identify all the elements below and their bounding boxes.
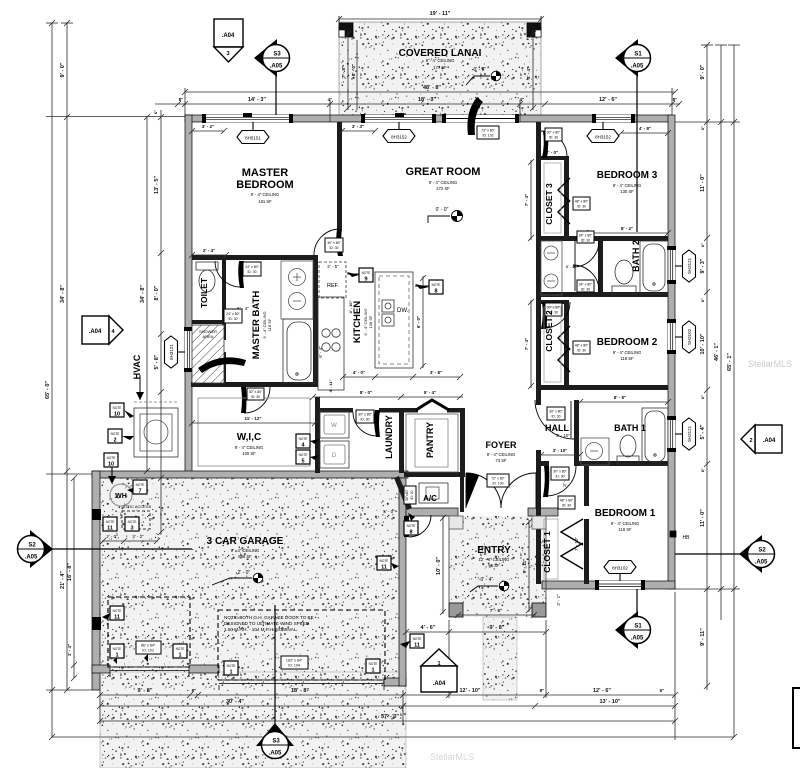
svg-text:34' - 8": 34' - 8" xyxy=(140,285,146,303)
wall closet1 left xyxy=(536,512,541,584)
wall closet3 right xyxy=(564,156,569,237)
note box 2 hvac xyxy=(108,429,134,444)
svg-text:9' - 4" CEILING: 9' - 4" CEILING xyxy=(235,445,264,450)
dim line bottom row2 xyxy=(97,703,678,709)
marker S1-A05 bottom xyxy=(615,589,651,649)
svg-text:NOTE: BOTH O.H. GARAGE DOOR TO: NOTE: BOTH O.H. GARAGE DOOR TO BE xyxy=(224,615,314,620)
note box 3 attic xyxy=(125,517,139,532)
svg-text:.A05: .A05 xyxy=(631,64,644,70)
garage interior dims 2-0 3-2 xyxy=(106,534,144,539)
size box wic door xyxy=(247,388,264,400)
door opening great room to lanai xyxy=(442,114,519,123)
svg-text:BEDROOM 1: BEDROOM 1 xyxy=(595,508,656,519)
room label 3 CAR GARAGE xyxy=(207,536,284,559)
room label W.I.C xyxy=(235,432,264,456)
svg-text:6": 6" xyxy=(700,395,705,399)
svg-text:3' - 2": 3' - 2" xyxy=(132,534,144,539)
dim kitchen 6-0 xyxy=(420,275,426,369)
svg-text:30" x 80": 30" x 80" xyxy=(553,470,567,474)
note box 11 garage bottom right xyxy=(400,634,424,649)
svg-text:34' - 8": 34' - 8" xyxy=(60,285,66,303)
svg-text:ID: 30: ID: 30 xyxy=(228,317,237,321)
svg-text:8' - 0": 8' - 0" xyxy=(154,285,160,300)
garage door threshold right xyxy=(219,680,384,690)
note box 11 garage left xyxy=(102,606,124,621)
size box closet2 xyxy=(573,341,590,354)
closet2 bifold xyxy=(558,326,570,372)
svg-text:11' - 0": 11' - 0" xyxy=(700,509,706,527)
svg-text:NOTE: NOTE xyxy=(113,647,122,651)
svg-text:FOYER: FOYER xyxy=(485,440,517,450)
dim line bottom row1 xyxy=(97,692,678,698)
svg-text:1.60 M.P.H. - 104 M.P.H. NOMIN: 1.60 M.P.H. - 104 M.P.H. NOMINAL xyxy=(224,627,297,632)
svg-text:46' - 1": 46' - 1" xyxy=(714,343,720,361)
svg-text:130 SF: 130 SF xyxy=(620,189,634,194)
svg-text:BEDROOM 2: BEDROOM 2 xyxy=(597,337,658,348)
svg-text:StellarMLS: StellarMLS xyxy=(430,752,474,762)
dim wic 11-12 xyxy=(189,420,318,426)
svg-text:4' - 8": 4' - 8" xyxy=(639,126,651,131)
svg-text:3' - 2": 3' - 2" xyxy=(202,124,214,129)
svg-text:S3: S3 xyxy=(272,739,280,745)
svg-text:ID: 102: ID: 102 xyxy=(483,134,494,138)
size box laundry door xyxy=(356,410,374,423)
size box garage house door xyxy=(404,486,416,504)
note box 10 hvac xyxy=(110,403,134,418)
svg-text:ID: 30: ID: 30 xyxy=(551,415,560,419)
room label KITCHEN (vertical) xyxy=(352,301,373,343)
svg-text:SH3121: SH3121 xyxy=(687,425,692,442)
svg-text:11' - 12": 11' - 12" xyxy=(245,416,262,421)
size box bedroom1 door xyxy=(551,467,569,480)
svg-text:8": 8" xyxy=(540,688,545,693)
room label FOYER xyxy=(485,440,517,463)
svg-text:.A05: .A05 xyxy=(755,560,768,566)
closet3 bifold xyxy=(558,178,570,224)
dim line left 9-0 34-8 21-4 xyxy=(61,20,73,693)
dim line top 48-8 xyxy=(182,89,678,95)
svg-text:8: 8 xyxy=(434,289,437,295)
room label MASTER BATH (vertical) xyxy=(251,291,272,360)
svg-text:18' - 8": 18' - 8" xyxy=(291,688,309,694)
dim line right 65-1 xyxy=(728,45,740,740)
svg-text:57' - 0": 57' - 0" xyxy=(381,714,399,720)
svg-text:NOTE: NOTE xyxy=(227,664,236,668)
svg-text:9' - 0": 9' - 0" xyxy=(60,62,66,77)
dim hall 8-8 xyxy=(577,399,671,405)
wall master bath right / kitchen left xyxy=(313,255,318,387)
svg-text:NOTE: NOTE xyxy=(128,520,137,524)
wall exterior top xyxy=(185,115,672,122)
svg-text:73" x 80": 73" x 80" xyxy=(481,129,495,133)
note box 4 laundry xyxy=(296,434,319,449)
garage door dashed right bay xyxy=(218,610,385,680)
size box bedroom3 door xyxy=(545,128,562,141)
dim line right 46-1 xyxy=(715,45,727,620)
note box 11 attic xyxy=(103,517,117,532)
dim bedroom3 4-8 xyxy=(618,130,671,136)
svg-text:1: 1 xyxy=(437,661,440,667)
svg-text:3' - 1": 3' - 1" xyxy=(556,594,561,606)
svg-text:IO: 104: IO: 104 xyxy=(288,664,300,668)
svg-text:12' - 10": 12' - 10" xyxy=(459,688,480,694)
svg-text:NOTE: NOTE xyxy=(113,609,122,613)
window bath2 right xyxy=(667,246,676,284)
level symbol lanai -0-4 xyxy=(466,67,501,85)
svg-text:7' - 10": 7' - 10" xyxy=(574,537,579,551)
svg-text:ID: 30: ID: 30 xyxy=(549,136,558,140)
svg-text:1: 1 xyxy=(229,670,232,676)
hvac label arrow xyxy=(136,375,144,400)
svg-text:9' - 11": 9' - 11" xyxy=(700,628,706,646)
wall closet1 right / bedroom1 left upper xyxy=(584,466,589,506)
svg-text:4' - 6": 4' - 6" xyxy=(421,625,436,631)
door bath2 south xyxy=(573,265,599,291)
svg-text:24" x 80": 24" x 80" xyxy=(579,283,593,287)
svg-text:4' - 11": 4' - 11" xyxy=(328,379,333,392)
svg-text:21' - 4": 21' - 4" xyxy=(60,571,66,589)
svg-text:.A05: .A05 xyxy=(631,636,644,642)
svg-text:DESIGNED TO ULTIMATE WIND SPEE: DESIGNED TO ULTIMATE WIND SPEED xyxy=(224,621,310,626)
kitchen island xyxy=(375,272,413,368)
marker S3-A05 top xyxy=(254,39,290,115)
svg-text:NOTE: NOTE xyxy=(106,520,115,524)
note box 1 garage b xyxy=(173,644,187,659)
door bedroom2 xyxy=(541,302,570,329)
wall master bath bottom / wic top xyxy=(191,382,318,387)
closet1 shelves xyxy=(544,519,558,579)
kitchen counter cooktop xyxy=(318,297,344,390)
svg-text:5: 5 xyxy=(301,459,304,465)
svg-text:8' - 8": 8' - 8" xyxy=(614,395,626,400)
marker S3-A05 bottom xyxy=(256,605,294,759)
svg-text:ID: 30: ID: 30 xyxy=(360,418,369,422)
svg-text:S3: S3 xyxy=(273,52,281,58)
svg-text:30' - 4": 30' - 4" xyxy=(226,699,244,705)
svg-text:AREA: AREA xyxy=(203,334,214,339)
shower door leaf xyxy=(198,357,246,373)
wall pantry bottom xyxy=(404,472,465,477)
svg-text:NOTE: NOTE xyxy=(362,271,371,275)
svg-text:1: 1 xyxy=(178,653,181,659)
svg-text:.A04: .A04 xyxy=(89,329,102,335)
svg-text:BATH 2: BATH 2 xyxy=(631,240,641,272)
svg-text:NOTE: NOTE xyxy=(136,483,145,487)
size box shower door xyxy=(224,309,242,323)
door toilet xyxy=(215,261,244,288)
marker S1-A05 top right xyxy=(615,39,651,232)
dim master 3-3 xyxy=(339,128,378,134)
wall front foyer left of entry xyxy=(406,508,458,516)
hex tag 8H3152 bedroom3 xyxy=(587,122,619,143)
svg-text:ID: 30: ID: 30 xyxy=(577,349,586,353)
svg-text:1' - 4": 1' - 4" xyxy=(67,644,72,656)
dim master 3-2 xyxy=(189,128,227,134)
svg-text:8' - 0": 8' - 0" xyxy=(351,64,356,76)
svg-text:3' - 10": 3' - 10" xyxy=(556,433,570,438)
svg-text:0' - 0": 0' - 0" xyxy=(436,207,449,213)
svg-text:.A05: .A05 xyxy=(270,64,283,70)
svg-text:ID: 30: ID: 30 xyxy=(562,504,571,508)
dim line left inner 34-8 xyxy=(144,114,150,474)
svg-text:2' - 5": 2' - 5" xyxy=(327,264,339,269)
svg-text:6": 6" xyxy=(700,126,705,130)
bath2 toilet xyxy=(612,260,636,294)
svg-text:4": 4" xyxy=(328,97,333,102)
svg-text:12' - 4" CEILING: 12' - 4" CEILING xyxy=(479,557,510,562)
dim entry 7-6 xyxy=(455,612,537,618)
svg-text:9: 9 xyxy=(364,277,367,283)
hex tag SH3121 bath2 xyxy=(675,250,696,282)
svg-text:3' - 3": 3' - 3" xyxy=(352,124,364,129)
wall closet2 top stub xyxy=(541,300,565,304)
hex tag 8H3102 bedroom1 xyxy=(604,561,636,582)
level symbol entry -0-4 xyxy=(470,577,509,592)
svg-text:11: 11 xyxy=(107,526,113,532)
wall bath2 mid xyxy=(598,241,603,295)
dim closets 7-4 line xyxy=(528,159,534,389)
wall garage top / wic bottom xyxy=(92,471,408,478)
svg-text:W: W xyxy=(331,423,337,429)
garage note text xyxy=(224,615,314,632)
lanai post right xyxy=(527,23,541,37)
svg-text:7' - 8": 7' - 8" xyxy=(341,66,346,78)
size label 86x84 xyxy=(136,641,161,662)
svg-text:48" x 80": 48" x 80" xyxy=(560,499,574,503)
svg-text:96 SF: 96 SF xyxy=(488,563,500,568)
svg-text:.A04: .A04 xyxy=(222,33,235,39)
svg-text:NOTE: NOTE xyxy=(369,662,378,666)
hex tag 8H3121 master bath left xyxy=(165,336,186,368)
svg-text:48' - 8": 48' - 8" xyxy=(423,85,441,91)
svg-text:10' - 10": 10' - 10" xyxy=(700,333,706,354)
room label BEDROOM 3 xyxy=(597,170,658,194)
svg-text:5' - 4": 5' - 4" xyxy=(700,424,706,439)
svg-text:7' - 6": 7' - 6" xyxy=(490,608,502,613)
hex tag SH3102 bedroom2 xyxy=(675,321,696,353)
wall garage bottom right stub xyxy=(384,678,406,686)
wall foyer left upper xyxy=(460,462,464,512)
dim entry 4-6 9-8 xyxy=(403,629,549,635)
wall central spine lower xyxy=(536,450,541,512)
svg-text:S2: S2 xyxy=(758,548,766,554)
window bedroom3 top xyxy=(592,114,635,123)
svg-text:NOTE: NOTE xyxy=(113,406,122,410)
svg-text:4": 4" xyxy=(520,97,525,102)
svg-text:8: 8 xyxy=(409,530,412,536)
dim line bottom closing xyxy=(52,736,734,738)
svg-text:30" x 80": 30" x 80" xyxy=(549,410,563,414)
dim line top row segments xyxy=(155,101,682,107)
wic shelves xyxy=(198,398,310,466)
dim line lanai interior verticals xyxy=(345,30,536,111)
door garage to house leaf xyxy=(404,515,431,537)
svg-text:2' - 0": 2' - 0" xyxy=(546,150,558,155)
entry porch side lines xyxy=(448,516,450,603)
dim line left 65-0 xyxy=(46,20,58,740)
dim entry vertical 9-11 xyxy=(526,519,532,613)
svg-text:NOTE: NOTE xyxy=(407,524,416,528)
svg-text:.A04: .A04 xyxy=(433,681,446,687)
wall closet3 top stub xyxy=(541,156,565,160)
note box 10 lower xyxy=(104,453,118,484)
door bedroom3 xyxy=(541,131,567,158)
svg-text:3: 3 xyxy=(130,526,133,532)
door bath2 north xyxy=(573,241,599,267)
covered lanai slab texture xyxy=(339,22,541,116)
room label BEDROOM 2 xyxy=(597,337,658,361)
dim entry vertical 10-0 xyxy=(440,515,446,615)
svg-text:2: 2 xyxy=(113,438,116,444)
svg-text:BEDROOM: BEDROOM xyxy=(236,179,293,191)
svg-text:16' - 8": 16' - 8" xyxy=(67,563,73,581)
hvac unit xyxy=(134,402,178,457)
svg-text:ATTIC ACCESS: ATTIC ACCESS xyxy=(123,504,152,509)
svg-text:181 SF: 181 SF xyxy=(258,199,272,204)
wall laundry pantry top xyxy=(320,408,353,413)
svg-text:.A05: .A05 xyxy=(269,751,282,757)
svg-text:9' - 4" CEILING: 9' - 4" CEILING xyxy=(426,58,455,63)
svg-text:BATH 1: BATH 1 xyxy=(614,423,646,433)
entry porch post bases top xyxy=(449,516,463,529)
svg-text:9' - 0": 9' - 0" xyxy=(700,64,706,79)
svg-text:HB: HB xyxy=(683,535,691,541)
room label BEDROOM 1 xyxy=(595,508,656,532)
note box 8 ac xyxy=(404,513,418,536)
laundry washer dryer xyxy=(320,411,349,468)
dim master 3-4 xyxy=(189,252,229,258)
extension lines to outer dims xyxy=(46,16,740,690)
size box master door xyxy=(325,238,343,252)
svg-text:CLOSET 3: CLOSET 3 xyxy=(544,183,554,225)
door laundry xyxy=(353,410,380,437)
bath1 tub xyxy=(642,408,668,465)
svg-text:14' - 3": 14' - 3" xyxy=(248,97,266,103)
svg-text:3: 3 xyxy=(226,51,229,57)
svg-text:NOTE: NOTE xyxy=(299,453,308,457)
svg-text:ID: 30: ID: 30 xyxy=(581,288,590,292)
door master bath xyxy=(241,387,270,413)
svg-text:IO: 103: IO: 103 xyxy=(142,649,154,653)
size box bedroom2 door xyxy=(545,303,562,316)
svg-text:SH3102: SH3102 xyxy=(687,328,692,345)
svg-text:1: 1 xyxy=(115,653,118,659)
a/c unit xyxy=(419,483,448,503)
wall wic right / laundry left xyxy=(315,397,320,473)
note box 1 garage c xyxy=(224,661,238,676)
svg-text:183" x 84": 183" x 84" xyxy=(286,659,303,663)
svg-text:MASTER: MASTER xyxy=(242,167,289,179)
wall toilet/shower divider xyxy=(192,320,226,324)
svg-text:NOTE: NOTE xyxy=(111,432,120,436)
wall garage right xyxy=(399,478,406,686)
svg-text:10: 10 xyxy=(108,462,114,468)
svg-text:36"x80": 36"x80" xyxy=(405,488,409,500)
wall closet1 right / bedroom1 left lower xyxy=(584,519,589,584)
svg-text:48" x 80": 48" x 80" xyxy=(575,344,589,348)
svg-text:10' - 0": 10' - 0" xyxy=(436,557,442,575)
extension lines top xyxy=(185,88,672,122)
note box 1 garage d xyxy=(366,659,380,674)
size box bath1 door xyxy=(547,407,565,420)
entry porch posts xyxy=(449,603,463,617)
svg-text:2' - 4": 2' - 4" xyxy=(203,248,215,253)
svg-text:NOTE: NOTE xyxy=(107,456,116,460)
svg-text:86" x 84": 86" x 84" xyxy=(141,644,156,648)
svg-text:6": 6" xyxy=(700,468,705,472)
room label GREAT ROOM xyxy=(406,166,481,191)
door garage left wall marks xyxy=(92,509,101,520)
note box 1 garage a xyxy=(110,644,124,664)
svg-text:NOTE: NOTE xyxy=(176,647,185,651)
svg-text:MASTER BATH: MASTER BATH xyxy=(251,291,262,360)
svg-text:8H3121: 8H3121 xyxy=(169,344,174,360)
svg-text:ID: 30: ID: 30 xyxy=(247,270,256,274)
window master bath left xyxy=(184,327,193,372)
closet2 shelves xyxy=(544,307,561,382)
entry walkway texture xyxy=(483,617,517,700)
svg-text:6": 6" xyxy=(153,110,158,114)
svg-text:8H5151: 8H5151 xyxy=(245,136,261,141)
svg-text:8' - 0": 8' - 0" xyxy=(566,264,577,269)
size box closet3 xyxy=(573,197,590,210)
svg-text:5' - 8": 5' - 8" xyxy=(154,354,160,369)
dim line left inner segments 13-5 8-0 5-8 xyxy=(158,110,164,535)
window bedroom1 bottom xyxy=(595,580,645,590)
svg-text:9' - 11": 9' - 11" xyxy=(522,559,527,573)
svg-text:9' - 4" CEILING: 9' - 4" CEILING xyxy=(231,548,260,553)
svg-text:2' - 0": 2' - 0" xyxy=(106,534,118,539)
svg-text:1: 1 xyxy=(371,668,374,674)
wall garage left xyxy=(92,471,100,690)
dim line lanai width 19-11 xyxy=(336,16,544,24)
hex tag 8H5151 master window xyxy=(237,122,269,144)
svg-text:ID: 100: ID: 100 xyxy=(493,482,504,486)
note box 7 wh xyxy=(127,480,147,495)
svg-text:5' - 4": 5' - 4" xyxy=(424,390,436,395)
svg-text:8H3152: 8H3152 xyxy=(391,135,407,140)
garage slab texture xyxy=(100,478,400,678)
svg-text:4' - 0": 4' - 0" xyxy=(353,370,365,375)
master bath vanity xyxy=(281,261,313,319)
marker S2-A05 left xyxy=(18,530,193,568)
svg-text:5' - 0": 5' - 0" xyxy=(383,509,395,514)
entry porch slab texture xyxy=(449,516,546,617)
svg-text:LAUNDRY: LAUNDRY xyxy=(384,415,394,459)
dim line bottom 57-0 xyxy=(97,718,678,724)
svg-text:8": 8" xyxy=(179,97,184,102)
room label MASTER BEDROOM xyxy=(236,167,293,204)
wall laundry right / pantry left xyxy=(399,408,404,473)
dim line left lower 16-8 xyxy=(71,475,77,681)
wall toilet right xyxy=(222,260,226,340)
adjacent sheet corner right edge xyxy=(793,688,800,748)
svg-text:9' - 4" CEILING: 9' - 4" CEILING xyxy=(611,521,640,526)
svg-text:6": 6" xyxy=(700,243,705,247)
wall exterior right xyxy=(668,115,675,589)
wall exterior left xyxy=(185,115,192,475)
svg-text:DW.: DW. xyxy=(397,308,409,314)
svg-text:888 SF: 888 SF xyxy=(238,554,252,559)
toilet master xyxy=(196,262,218,292)
lanai post left xyxy=(339,23,353,37)
svg-text:72" x 80": 72" x 80" xyxy=(491,477,505,481)
wall bedroom3 bottom / bath2 top xyxy=(541,236,668,241)
wall closet2 right xyxy=(564,300,569,385)
svg-text:9' - 8": 9' - 8" xyxy=(490,625,505,631)
marker S2-A05 right xyxy=(675,535,775,573)
bath1 vanity xyxy=(581,438,609,465)
